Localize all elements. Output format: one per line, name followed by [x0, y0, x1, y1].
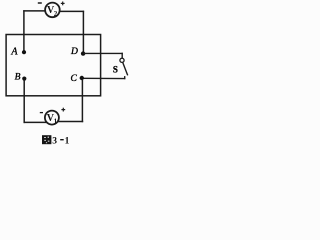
node A [22, 50, 26, 54]
wire V2 right terminal to right corner [60, 10, 85, 12]
V2 minus polarity mark [38, 2, 42, 4]
paper background [0, 0, 131, 147]
svg-text:A: A [10, 46, 18, 57]
caption figure 3-1 (CJK glyph drawn as vector) [42, 135, 51, 144]
wire left corner down to node A [23, 10, 25, 51]
svg-text:3: 3 [52, 137, 57, 147]
wire node D to switch (top right horizontal) [83, 52, 123, 54]
svg-text:B: B [15, 73, 21, 83]
node D [81, 51, 85, 55]
switch S blade [123, 62, 128, 75]
wire right corner down to node D [82, 11, 84, 52]
wire switch to node C (bottom right horizontal) [82, 77, 126, 79]
svg-text:1: 1 [65, 137, 70, 147]
voltage source V1 (bottom) [45, 111, 59, 126]
wire switch upper stub [121, 53, 123, 59]
svg-text:1: 1 [54, 117, 58, 125]
node B [22, 77, 26, 81]
network box rectangle [6, 35, 101, 96]
svg-text:C: C [71, 74, 78, 84]
V1 minus polarity mark [40, 112, 43, 114]
V1 plus polarity mark [61, 108, 65, 112]
wire V1 left horizontal [24, 121, 47, 123]
wire right corner up to node C [81, 79, 83, 122]
svg-text:D: D [70, 47, 78, 57]
wire node B down to V1 left corner [23, 80, 25, 124]
svg-text:2: 2 [54, 10, 58, 18]
node C [80, 76, 84, 80]
switch S contact circle [120, 58, 124, 62]
switch lower stub [124, 76, 126, 79]
svg-text:S: S [113, 65, 118, 75]
V2 plus polarity mark [61, 2, 65, 6]
wire V2 left terminal to left corner [23, 10, 45, 12]
wire V1 right horizontal to right corner [58, 121, 84, 123]
voltage source V2 (top) [45, 3, 60, 18]
